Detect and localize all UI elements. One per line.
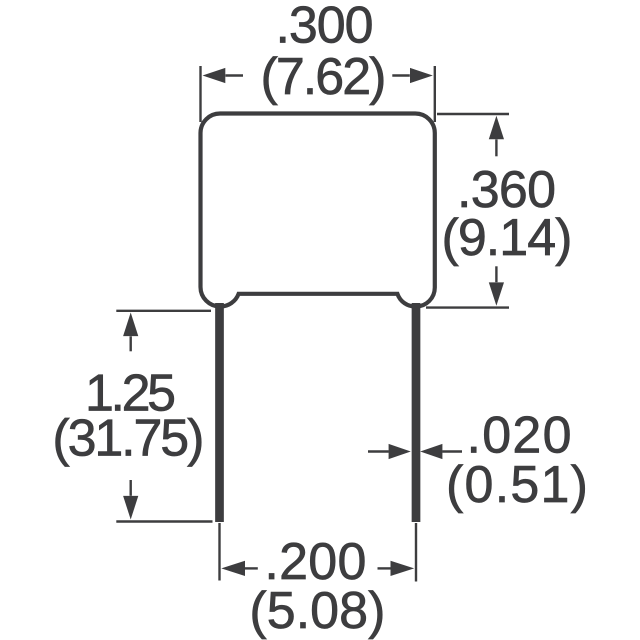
svg-text:(9.14): (9.14) (442, 209, 573, 267)
dimension 1.25 up arrow (123, 313, 138, 337)
dimension 1.25 down arrow (123, 496, 138, 520)
svg-text:(31.75): (31.75) (52, 410, 204, 468)
extension line left of .200 (218, 523, 220, 581)
right lead (412, 303, 421, 522)
svg-text:(0.51): (0.51) (446, 456, 588, 514)
left lead (215, 303, 224, 522)
extension line right of .200 (415, 523, 417, 582)
dimension .360 up arrow (489, 116, 504, 139)
capacitor body outline (201, 114, 435, 307)
svg-text:(7.62): (7.62) (261, 48, 387, 106)
dimension .200 left arrow (221, 561, 245, 576)
dimension .300 left arrow (203, 68, 226, 83)
extension line top-right of .300 (434, 66, 436, 122)
dimension .020 left arrow (389, 444, 411, 459)
dimension .020 right arrow (420, 444, 442, 459)
extension line bottom of 1.25 (116, 520, 212, 522)
extension line top of .360 (437, 113, 509, 115)
dimension .200 right arrow (391, 561, 415, 576)
extension line top of 1.25 (116, 310, 211, 312)
dimension .360 down arrow (489, 282, 504, 305)
extension line bottom of .360 (426, 306, 509, 308)
extension line top-left of .300 (199, 66, 201, 122)
svg-text:(5.08): (5.08) (249, 582, 385, 640)
dimension .300 right arrow (410, 68, 433, 83)
svg-text:.300: .300 (276, 0, 374, 55)
